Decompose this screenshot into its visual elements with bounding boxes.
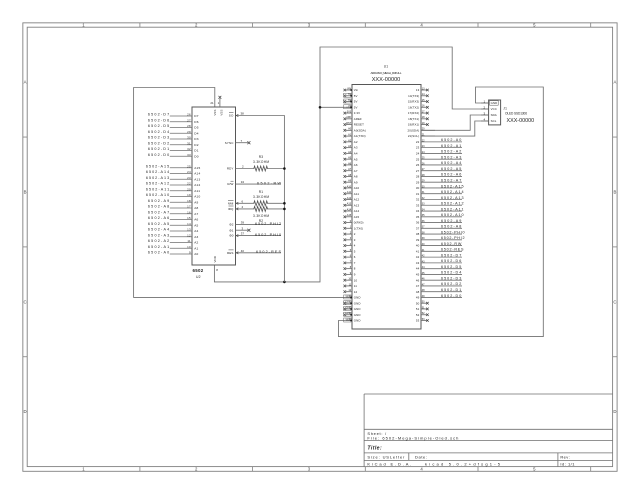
svg-text:GND: GND: [354, 301, 361, 305]
no-connect U2 pin 1 VSS (top): [218, 96, 224, 116]
svg-text:12: 12: [187, 233, 191, 237]
svg-text:A13: A13: [347, 203, 352, 206]
junction VDD rail / pull-up rail: [283, 281, 286, 284]
svg-text:3V3: 3V3: [347, 110, 352, 113]
svg-text:J1: J1: [503, 106, 507, 110]
no-connect U1 right pin 14 14(TX3): [408, 93, 429, 98]
node 6502-A2: U2 pin 11 A2 with global label: [148, 239, 199, 245]
svg-text:A7: A7: [354, 169, 358, 173]
svg-text:22: 22: [187, 182, 191, 186]
svg-text:5: 5: [354, 249, 356, 253]
U1 left pin 3V3 3.3V: [344, 110, 361, 115]
svg-text:32: 32: [416, 198, 420, 202]
svg-text:Φ0: Φ0: [229, 234, 233, 238]
wire GND net: Arduino bottom GND pin loop to J1 pin 1: [339, 87, 544, 337]
svg-text:25: 25: [416, 157, 420, 161]
svg-text:19(RX1): 19(RX1): [408, 123, 419, 127]
J1 pin 1 GND: [481, 99, 498, 105]
junction R2 to rail: [283, 208, 286, 211]
svg-text:D5: D5: [194, 126, 198, 130]
svg-text:6502-A6: 6502-A6: [148, 216, 169, 220]
svg-text:C: C: [23, 299, 26, 304]
no-connect U1 right pin 16 16(TX2): [408, 105, 429, 110]
svg-text:6502-D1: 6502-D1: [148, 147, 169, 151]
resistor R1 3.3KOHM (NMI pull-up): [253, 190, 269, 206]
svg-text:B: B: [613, 190, 616, 195]
svg-text:3.3V: 3.3V: [354, 111, 360, 115]
U1 left pin GND GND: [344, 312, 361, 317]
svg-text:Φ2: Φ2: [229, 223, 233, 227]
svg-text:30: 30: [416, 186, 420, 190]
J1 pin 3 SDA: [481, 111, 497, 117]
node 6502-D5: U2 pin 28 D5 with global label: [148, 124, 199, 130]
svg-text:VSS: VSS: [213, 110, 217, 116]
no-connect U1 right pin 51 51: [416, 306, 429, 311]
op IC U2 6502 CPU body: [192, 107, 236, 265]
U1 left pin A12 A12: [344, 197, 360, 202]
svg-text:35: 35: [416, 215, 420, 219]
svg-text:3.3KOHM: 3.3KOHM: [253, 195, 269, 199]
U1 left pin A8 A8: [344, 174, 358, 179]
svg-text:10: 10: [354, 278, 358, 282]
U1 left pin 0 0(RX0): [344, 220, 364, 225]
svg-text:6502-A14: 6502-A14: [146, 170, 169, 174]
svg-text:5V: 5V: [354, 105, 358, 109]
svg-text:SO: SO: [229, 114, 234, 118]
U1 left pin 12 12: [344, 289, 358, 294]
svg-text:39: 39: [416, 238, 420, 242]
svg-text:A2: A2: [194, 241, 198, 245]
svg-text:R1: R1: [259, 190, 264, 194]
svg-text:GND: GND: [354, 313, 361, 317]
node 6502-D5: U1 right pin 44 with global label: [416, 265, 462, 271]
svg-text:6502: 6502: [193, 268, 204, 273]
svg-text:21: 21: [210, 101, 214, 105]
svg-text:33: 33: [187, 153, 191, 157]
svg-text:4: 4: [354, 244, 356, 248]
node 6502-A6: U1 right pin 28 with global label: [416, 173, 462, 179]
svg-text:6502-A8: 6502-A8: [148, 205, 169, 209]
svg-text:6502-A15: 6502-A15: [146, 164, 169, 168]
svg-text:6502-D4: 6502-D4: [148, 130, 169, 134]
svg-text:28: 28: [416, 175, 420, 179]
svg-text:File: 6502-Mega-Simple-Oled.sc: File: 6502-Mega-Simple-Oled.sch: [367, 436, 458, 441]
svg-text:A13: A13: [354, 203, 360, 207]
U1 left pin A7 A7: [344, 168, 358, 173]
svg-text:26: 26: [187, 113, 191, 117]
svg-text:6502-D0: 6502-D0: [148, 153, 169, 157]
svg-text:A10: A10: [194, 195, 200, 199]
node 6502-A9: U1 right pin 36 with global label: [416, 219, 462, 225]
svg-text:6502-D0: 6502-D0: [441, 294, 461, 298]
svg-text:6502-A6: 6502-A6: [441, 173, 461, 177]
svg-text:31: 31: [416, 192, 420, 196]
node 6502-D6: U2 pin 27 D6 with global label: [148, 118, 199, 124]
svg-text:6502-A3: 6502-A3: [441, 155, 461, 159]
svg-text:34: 34: [416, 209, 420, 213]
svg-text:6502-A0: 6502-A0: [148, 251, 169, 255]
no-connect U1 right pin 13 13: [416, 87, 429, 92]
svg-text:48: 48: [416, 290, 420, 294]
node 6502-D0: U1 right pin 49 with global label: [416, 294, 462, 300]
node 6502-A4: U2 pin 13 A4 with global label: [148, 228, 199, 234]
svg-text:Date:: Date:: [415, 454, 428, 459]
U1 left pin 1 1(TX0): [344, 226, 364, 231]
node 6502-D4: U2 pin 29 D4 with global label: [148, 130, 199, 136]
svg-text:6502-PHI0: 6502-PHI0: [255, 233, 281, 237]
node 6502-A1: U1 right pin 23 with global label: [416, 144, 462, 150]
node 6502-A14: U2 pin 24 A14 with global label: [146, 170, 201, 176]
svg-text:6502-D7: 6502-D7: [148, 113, 169, 117]
svg-text:D1: D1: [194, 149, 198, 153]
svg-text:A13: A13: [194, 177, 200, 181]
connector J1 OLED SSD1306 body: [489, 100, 501, 125]
svg-text:AREF: AREF: [354, 117, 362, 121]
node 6502-D7: U1 right pin 42 with global label: [416, 253, 462, 259]
svg-text:3: 3: [242, 226, 244, 230]
U1 left pin 11 11: [344, 283, 358, 288]
svg-text:A6: A6: [194, 218, 198, 222]
svg-text:3.3KOHM: 3.3KOHM: [253, 160, 269, 164]
svg-text:6502-PHI2: 6502-PHI2: [441, 236, 465, 240]
svg-text:ARF: ARF: [346, 116, 351, 119]
svg-text:6502-PHI0: 6502-PHI0: [441, 230, 465, 234]
svg-text:6502-D2: 6502-D2: [441, 282, 461, 286]
svg-text:A5: A5: [194, 223, 198, 227]
node 6502-A8: U2 pin 17 A8 with global label: [148, 205, 199, 211]
svg-text:9: 9: [354, 273, 356, 277]
svg-text:9: 9: [189, 251, 191, 255]
svg-text:16: 16: [187, 210, 191, 214]
svg-text:GND: GND: [354, 296, 361, 300]
U1 left pin A3 A3: [344, 145, 358, 150]
svg-text:5V: 5V: [354, 94, 358, 98]
svg-text:6502-A14: 6502-A14: [441, 190, 464, 194]
svg-text:6502-A10: 6502-A10: [146, 193, 169, 197]
node 6502-D1: U1 right pin 48 with global label: [416, 288, 462, 294]
U1 left pin 2 2: [344, 231, 356, 236]
svg-text:A4: A4: [194, 229, 198, 233]
svg-text:6502-A7: 6502-A7: [148, 210, 169, 214]
svg-text:21(SCL): 21(SCL): [408, 134, 419, 138]
svg-text:14(TX3): 14(TX3): [408, 94, 419, 98]
svg-text:25: 25: [187, 164, 191, 168]
node 6502-A0: U2 pin 9 A0 with global label: [148, 251, 199, 257]
U2 pin 2 RDY with pull-up: [227, 165, 285, 171]
svg-text:A8: A8: [194, 206, 198, 210]
junction R3 to rail: [283, 167, 286, 170]
no-connect U1 right pin 50 50: [416, 301, 429, 306]
svg-text:Φ1: Φ1: [229, 228, 233, 232]
svg-text:A11: A11: [354, 192, 360, 196]
node 6502-A1: U2 pin 10 A1 with global label: [148, 245, 199, 251]
svg-text:6502-RW: 6502-RW: [441, 242, 462, 246]
svg-text:6502-D5: 6502-D5: [441, 265, 461, 269]
no-connect U1 right pin 19 19(RX1): [408, 122, 429, 127]
svg-text:6502-A1: 6502-A1: [441, 144, 461, 148]
node 6502-D1: U2 pin 32 D1 with global label: [148, 147, 199, 153]
svg-text:Vin: Vin: [354, 88, 359, 92]
no-connect U1 right pin 53 53: [416, 318, 429, 323]
svg-text:6502-D3: 6502-D3: [148, 136, 169, 140]
junction R1 to rail: [283, 202, 286, 205]
svg-text:OLED SSD1306: OLED SSD1306: [505, 111, 527, 115]
svg-text:SYNC: SYNC: [225, 141, 234, 145]
svg-text:D2: D2: [194, 143, 198, 147]
svg-text:A12: A12: [194, 183, 200, 187]
title block: [364, 394, 612, 467]
U1 left pin RST RESET: [344, 122, 365, 127]
wire 5V net branch to Arduino 5V pin: [320, 106, 352, 108]
svg-text:R3: R3: [259, 155, 264, 159]
svg-text:18: 18: [187, 199, 191, 203]
node 6502-PHI2: U1 right pin 39 with global label: [416, 236, 465, 242]
svg-text:14: 14: [187, 222, 191, 226]
no-connect U1 right pin 18 18(TX1): [408, 116, 429, 121]
node 6502-RES: U2 pin 40 RES with global label: [227, 249, 282, 255]
svg-text:A8: A8: [354, 175, 358, 179]
svg-text:RESET: RESET: [354, 123, 364, 127]
svg-text:NMI: NMI: [228, 201, 234, 205]
svg-text:B: B: [24, 190, 27, 195]
U2 pin 8 VDD (bottom, to 5V rail): [213, 256, 218, 272]
node 6502-RW: U2 pin 34 R/W with global label: [227, 180, 281, 186]
svg-text:A10: A10: [347, 185, 352, 188]
U1 left pin 5V 5V: [344, 105, 358, 110]
svg-text:RES: RES: [227, 251, 233, 255]
svg-text:6502-A13: 6502-A13: [146, 176, 169, 180]
svg-text:U1: U1: [384, 65, 389, 69]
svg-text:GND: GND: [354, 307, 361, 311]
J1 pin 2 VCC: [481, 105, 497, 111]
svg-text:33: 33: [416, 203, 420, 207]
U1 left pin 6 6: [344, 255, 356, 260]
svg-text:30: 30: [187, 136, 191, 140]
svg-text:A14: A14: [347, 208, 352, 211]
svg-text:40: 40: [416, 244, 420, 248]
node 6502-A7: U2 pin 16 A7 with global label: [148, 210, 199, 216]
svg-text:6502-A10: 6502-A10: [441, 213, 464, 217]
svg-text:6502-A2: 6502-A2: [441, 150, 461, 154]
node 6502-D7: U2 pin 26 D7 with global label: [148, 113, 199, 119]
U1 left pin A9 A9: [344, 180, 358, 185]
svg-text:26: 26: [416, 163, 420, 167]
svg-text:46: 46: [416, 278, 420, 282]
svg-text:24: 24: [187, 170, 191, 174]
U1 left pin GND GND: [344, 295, 361, 300]
svg-text:6502-A13: 6502-A13: [441, 196, 464, 200]
svg-text:1(TX0): 1(TX0): [354, 226, 363, 230]
svg-text:A2: A2: [354, 140, 358, 144]
svg-text:3: 3: [354, 238, 356, 242]
svg-text:6502-A1: 6502-A1: [148, 245, 169, 249]
svg-text:6502-A12: 6502-A12: [441, 202, 464, 206]
svg-text:A0: A0: [194, 252, 198, 256]
svg-text:24: 24: [416, 151, 420, 155]
node 6502-A9: U2 pin 18 A9 with global label: [148, 199, 199, 205]
svg-text:37: 37: [416, 226, 420, 230]
svg-text:A7: A7: [194, 212, 198, 216]
svg-text:6502-A5: 6502-A5: [148, 222, 169, 226]
svg-text:6502-A5: 6502-A5: [441, 167, 461, 171]
node 6502-A13: U1 right pin 32 with global label: [416, 196, 464, 202]
svg-text:19: 19: [187, 193, 191, 197]
svg-text:15(RX3): 15(RX3): [408, 100, 419, 104]
wire SDA net: Arduino pin 20 to J1 pin 3: [421, 115, 489, 130]
svg-text:13: 13: [187, 228, 191, 232]
svg-text:6: 6: [354, 255, 356, 259]
svg-text:31: 31: [187, 141, 191, 145]
node 6502-A10: U1 right pin 35 with global label: [416, 213, 464, 219]
svg-text:6502-PHI2: 6502-PHI2: [255, 222, 281, 226]
U1 left pin A1 A1(TXD): [344, 134, 366, 139]
svg-text:37: 37: [241, 232, 245, 236]
U1 left pin 9 9: [344, 272, 356, 277]
svg-text:32: 32: [187, 147, 191, 151]
svg-text:2: 2: [354, 232, 356, 236]
no-connect U1 right pin 15 15(RX3): [408, 99, 429, 104]
svg-text:2: 2: [242, 165, 244, 169]
svg-text:6502-D3: 6502-D3: [441, 276, 461, 280]
svg-text:52: 52: [416, 313, 420, 317]
svg-text:11: 11: [187, 239, 191, 243]
svg-text:47: 47: [416, 284, 420, 288]
svg-text:6502-A7: 6502-A7: [441, 179, 461, 183]
svg-text:A15: A15: [194, 166, 200, 170]
svg-text:A15: A15: [354, 215, 360, 219]
svg-text:6502-RES: 6502-RES: [256, 250, 282, 254]
U2 pin 4 IRQ with pull-up: [228, 205, 285, 211]
svg-text:23: 23: [187, 176, 191, 180]
U1 left pin 5V 5V: [344, 99, 358, 104]
no-connect U1 right pin 52 52: [416, 312, 429, 317]
svg-text:U2: U2: [196, 275, 201, 279]
svg-text:0(RX0): 0(RX0): [354, 221, 364, 225]
svg-text:IRQ: IRQ: [228, 207, 234, 211]
svg-text:6502-A11: 6502-A11: [146, 187, 169, 191]
svg-text:A14: A14: [354, 209, 360, 213]
svg-text:A9: A9: [194, 200, 198, 204]
svg-text:13: 13: [416, 88, 420, 92]
no-connect U2 pin 3 PHI1: [229, 226, 250, 232]
svg-text:6502-A9: 6502-A9: [441, 219, 461, 223]
node 6502-A10: U2 pin 19 A10 with global label: [146, 193, 201, 199]
U2 value 6502 and reference: [193, 268, 204, 279]
svg-text:A15: A15: [347, 214, 352, 217]
node 6502-RW: U1 right pin 40 with global label: [416, 242, 462, 248]
svg-text:D: D: [613, 409, 616, 414]
U1 left pin A6 A6: [344, 162, 358, 167]
node 6502-A5: U1 right pin 27 with global label: [416, 167, 462, 173]
U1 left pin 5V 5V: [344, 93, 358, 98]
U1 left pin 8 8: [344, 266, 356, 271]
node 6502-D4: U1 right pin 45 with global label: [416, 271, 462, 277]
svg-text:6502-A3: 6502-A3: [148, 233, 169, 237]
svg-text:XXX-00000: XXX-00000: [372, 77, 401, 83]
svg-text:D7: D7: [194, 114, 198, 118]
svg-text:D3: D3: [194, 137, 198, 141]
node 6502-PHI0: U2 pin 37 PHI0 with global label: [229, 232, 281, 238]
node 6502-D3: U2 pin 30 D3 with global label: [148, 136, 199, 142]
svg-text:34: 34: [241, 180, 245, 184]
U2 pin 6 NMI with pull-up: [228, 199, 285, 205]
svg-text:GND: GND: [354, 319, 361, 323]
svg-text:6502-D7: 6502-D7: [441, 253, 461, 257]
svg-text:6502-A12: 6502-A12: [146, 182, 169, 186]
svg-text:Title:: Title:: [367, 446, 382, 452]
node 6502-A12: U1 right pin 33 with global label: [416, 202, 464, 208]
svg-text:16(TX2): 16(TX2): [408, 105, 419, 109]
U1 right pin 20 20(SDA) (I2C wire): [408, 128, 435, 133]
wire pull-up rail from U2 SO pin down to VDD rail: [236, 116, 285, 282]
svg-text:Id: 1/1: Id: 1/1: [560, 462, 575, 467]
svg-text:29: 29: [416, 180, 420, 184]
U1 left pin A13 A13: [344, 203, 360, 208]
U1 left pin A2 A2: [344, 139, 358, 144]
svg-text:27: 27: [187, 118, 191, 122]
svg-text:10: 10: [187, 245, 191, 249]
svg-text:22: 22: [416, 140, 420, 144]
svg-text:17(RX2): 17(RX2): [408, 111, 419, 115]
U1 left pin 3 3: [344, 237, 356, 242]
svg-text:C: C: [613, 299, 616, 304]
svg-text:3.3KOHM: 3.3KOHM: [253, 214, 269, 218]
svg-text:A1: A1: [194, 246, 198, 250]
svg-text:39: 39: [241, 221, 245, 225]
U1 left pin A11 A11: [344, 191, 360, 196]
svg-text:45: 45: [416, 273, 420, 277]
svg-text:ARDUINO_MEGA_R3FULL: ARDUINO_MEGA_R3FULL: [371, 71, 402, 75]
node 6502-RES: U1 right pin 41 with global label: [416, 248, 464, 254]
svg-text:A3: A3: [194, 235, 198, 239]
J1 reference and value text: [503, 106, 534, 124]
svg-text:SCL: SCL: [491, 119, 497, 123]
svg-text:6502-A2: 6502-A2: [148, 239, 169, 243]
svg-text:6502-D6: 6502-D6: [148, 118, 169, 122]
svg-text:41: 41: [416, 249, 420, 253]
svg-text:6502-A15: 6502-A15: [441, 184, 464, 188]
svg-text:27: 27: [416, 169, 420, 173]
svg-text:A11: A11: [194, 189, 200, 193]
U1 left pin GND GND: [344, 301, 361, 306]
node 6502-A2: U1 right pin 24 with global label: [416, 150, 462, 156]
svg-text:A10: A10: [354, 186, 360, 190]
wire GND net: 6502 VSS pin 21 loop to Arduino GND pin: [134, 88, 352, 298]
svg-text:36: 36: [416, 221, 420, 225]
node 6502-D2: U2 pin 31 D2 with global label: [148, 141, 199, 147]
J1 pin 4 SCL: [481, 117, 497, 123]
node 6502-PHI2: U2 pin 39 PHI2 with global label: [229, 221, 281, 227]
node 6502-A6: U2 pin 15 A6 with global label: [148, 216, 199, 222]
svg-text:A14: A14: [194, 172, 200, 176]
U1 left pin VIN Vin: [344, 87, 359, 92]
U1 left pin 5 5: [344, 249, 356, 254]
node 6502-A0: U1 right pin 22 with global label: [416, 138, 462, 144]
svg-text:29: 29: [187, 130, 191, 134]
node 6502-D0: U2 pin 33 D0 with global label: [148, 153, 199, 159]
U1 right pin 21 21(SCL) (I2C wire): [408, 134, 435, 139]
svg-text:12: 12: [354, 290, 358, 294]
svg-text:8: 8: [354, 267, 356, 271]
wire SCL net: Arduino pin 21 to J1 pin 4: [421, 121, 489, 136]
svg-text:8: 8: [216, 268, 218, 272]
node 6502-A12: U2 pin 22 A12 with global label: [146, 182, 201, 188]
node 6502-D3: U1 right pin 46 with global label: [416, 276, 462, 282]
svg-text:23: 23: [416, 146, 420, 150]
svg-text:VDD: VDD: [213, 256, 217, 262]
node 6502-A15: U2 pin 25 A15 with global label: [146, 164, 201, 170]
svg-text:43: 43: [416, 261, 420, 265]
